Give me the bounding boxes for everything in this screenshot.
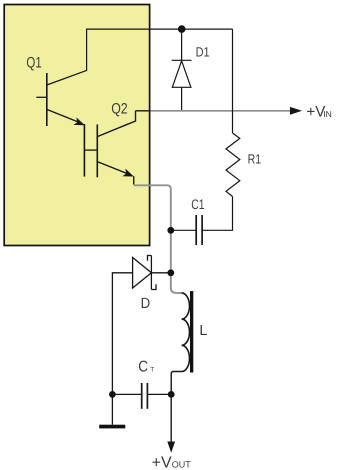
svg-text:D: D bbox=[141, 296, 151, 312]
transistor Q1 bbox=[36, 73, 84, 126]
svg-text:C: C bbox=[138, 358, 148, 375]
gray wire Q2 emitter to node / inductor bbox=[134, 185, 182, 293]
node dot C1 junction bbox=[167, 227, 174, 234]
svg-text:Q1: Q1 bbox=[26, 54, 41, 71]
highlighted block (yellow region) bbox=[4, 5, 149, 246]
transistor Q2 bbox=[84, 111, 135, 185]
Q2 base wire vertical bbox=[83, 124, 85, 177]
wire Q1 collector to top rail bbox=[47, 29, 233, 85]
Q2 collector wire to VIN rail bbox=[97, 111, 135, 137]
diode D (Schottky) bbox=[112, 256, 170, 425]
inductor core bar bbox=[190, 291, 193, 372]
svg-text:R1: R1 bbox=[248, 151, 262, 166]
+VOUT arrow bbox=[170, 394, 172, 442]
capacitor C_T bbox=[112, 383, 171, 409]
node dot C_T left bbox=[109, 391, 116, 398]
svg-text:IN: IN bbox=[323, 109, 332, 119]
Q2 base tick bbox=[84, 149, 97, 151]
capacitor C1 bbox=[171, 215, 202, 245]
node dot diode D junction bbox=[167, 269, 174, 276]
resistor R1 bbox=[202, 29, 240, 230]
Q1 emitter with arrow bbox=[47, 109, 82, 123]
ground bbox=[99, 425, 125, 429]
svg-text:T: T bbox=[150, 367, 154, 374]
inductor bottom lead bbox=[171, 372, 181, 395]
Q1 base bar bbox=[46, 73, 48, 126]
diode D1 bbox=[172, 29, 192, 111]
inductor L coil bbox=[182, 293, 190, 372]
node dot top rail / D1 bbox=[178, 25, 186, 33]
+VIN rail with arrow bbox=[136, 110, 151, 112]
svg-text:D1: D1 bbox=[196, 45, 210, 60]
svg-text:L: L bbox=[199, 323, 207, 339]
svg-text:+V: +V bbox=[152, 454, 172, 470]
svg-text:Q2: Q2 bbox=[111, 100, 128, 117]
node dot C_T right bbox=[168, 391, 175, 398]
Q2 emitter stub down bbox=[133, 176, 135, 184]
svg-text:C1: C1 bbox=[191, 197, 204, 212]
Q2 emitter with arrow bbox=[97, 162, 130, 175]
Q2 base bar bbox=[96, 124, 98, 177]
svg-text:OUT: OUT bbox=[172, 460, 192, 470]
Q1 base lead stub bbox=[36, 96, 46, 98]
